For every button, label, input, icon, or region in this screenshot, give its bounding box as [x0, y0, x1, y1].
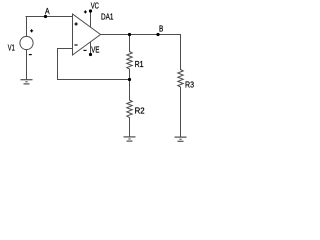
- op-amp VE supply pin: [90, 42, 92, 55]
- svg-text:R2: R2: [135, 106, 145, 116]
- svg-text:B: B: [159, 24, 164, 34]
- V1 plus polarity mark: [30, 29, 33, 32]
- svg-text:V1: V1: [8, 43, 15, 53]
- ground under R3: [175, 137, 187, 141]
- resistor R1: [127, 52, 132, 70]
- VE minus mark: [84, 49, 87, 51]
- VC plus mark: [84, 10, 87, 13]
- svg-text:A: A: [45, 6, 50, 16]
- wire R2 bottom to ground: [129, 118, 131, 137]
- resistor R2: [127, 100, 132, 118]
- wire R3 top from corner: [180, 35, 182, 70]
- svg-text:VC: VC: [91, 0, 99, 10]
- op-amp - input mark: [74, 44, 77, 46]
- wire op-amp output to node B and R3 corner: [101, 34, 181, 36]
- op-amp DA1 triangle: [73, 14, 101, 55]
- wire R3 bottom to ground: [180, 87, 182, 137]
- ground under R2: [124, 137, 136, 141]
- op-amp VC supply pin: [90, 11, 92, 27]
- ground under V1: [21, 80, 33, 84]
- svg-text:R1: R1: [135, 59, 144, 69]
- V1 minus polarity mark: [29, 54, 32, 56]
- resistor R3: [178, 70, 183, 88]
- junction R1/R2/feedback: [128, 78, 131, 81]
- op-amp + input mark: [75, 22, 78, 25]
- svg-text:VE: VE: [91, 44, 99, 54]
- wire R1 bottom to junction: [129, 69, 131, 79]
- node A: [44, 15, 47, 18]
- wire R2 top: [129, 80, 131, 101]
- wire R1 top: [129, 35, 131, 52]
- wire op-amp - input: [58, 48, 73, 50]
- wire V1 bottom to ground: [26, 50, 28, 80]
- wire V1 top to node A rail: [26, 17, 28, 37]
- wire feedback horizontal to R1/R2 junction: [58, 79, 130, 81]
- svg-text:DA1: DA1: [101, 11, 114, 21]
- junction at op-amp output / R1: [128, 33, 131, 36]
- wire feedback vertical: [57, 49, 59, 80]
- wire node A rail to op-amp + input: [26, 16, 73, 18]
- node B: [156, 33, 159, 36]
- voltage source V1: [20, 36, 33, 49]
- VC terminal dot: [89, 9, 92, 12]
- svg-text:R3: R3: [185, 80, 194, 90]
- VE terminal dot: [89, 53, 92, 56]
